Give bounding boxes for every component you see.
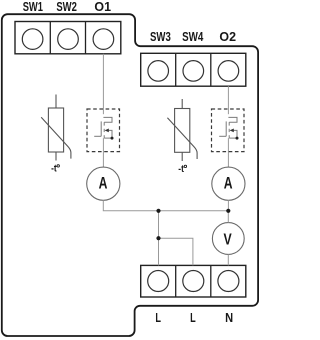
ammeter A1 <box>87 167 120 200</box>
terminal L2 screw <box>183 271 204 292</box>
svg-text:-t: -t <box>178 164 184 175</box>
terminal N screw <box>218 271 239 292</box>
junction dot L1/L2 branch <box>156 236 160 240</box>
svg-text:V: V <box>224 232 233 249</box>
device case outline <box>2 14 258 336</box>
terminal SW3 screw <box>148 61 169 82</box>
junction dot bus/L1 <box>156 209 160 213</box>
terminal block TB3 (L L N) <box>141 265 246 297</box>
dashed enclosure of Q2 <box>212 109 245 152</box>
Q2 substrate arrow <box>230 129 234 133</box>
svg-text:SW1: SW1 <box>23 0 43 14</box>
svg-text:O2: O2 <box>219 29 236 44</box>
MOSFET Q2 <box>219 117 237 138</box>
voltmeter V1 <box>212 223 244 255</box>
junction dot bus/A2/V1 <box>226 209 230 213</box>
thermistor RT1 <box>41 95 71 161</box>
Q1 source junction dot <box>111 137 114 140</box>
wire O1 to Q1 drain <box>102 54 104 114</box>
svg-text:SW2: SW2 <box>56 0 77 14</box>
wire Q2 source to A2 <box>227 138 229 167</box>
svg-text:O1: O1 <box>94 0 111 14</box>
wire A1 down and bus to A2 <box>103 200 228 211</box>
svg-text:SW4: SW4 <box>182 29 204 44</box>
svg-text:A: A <box>224 175 233 193</box>
terminal O2 screw <box>218 61 239 82</box>
dashed enclosure of Q1 <box>87 109 120 152</box>
terminal L1 screw <box>148 271 169 292</box>
svg-text:L: L <box>190 310 196 325</box>
wire A2 to junction <box>227 200 229 211</box>
terminal SW2 screw <box>58 29 79 50</box>
svg-text:-t: -t <box>51 164 57 175</box>
Q2 source junction dot <box>236 137 239 140</box>
wire junction to V1 <box>227 211 229 223</box>
svg-text:L: L <box>155 310 161 325</box>
svg-text:A: A <box>99 175 108 193</box>
wire O2 to Q2 drain <box>227 86 229 114</box>
wire bus to terminal L1 <box>158 211 160 266</box>
wire Q1 source to A1 <box>102 138 104 167</box>
Q1 substrate arrow <box>105 129 109 133</box>
wire V1 to terminal N <box>227 254 229 265</box>
thermistor RT2 <box>167 99 197 161</box>
terminal SW1 screw <box>22 29 43 50</box>
terminal block TB2 (SW3 SW4 O2) <box>141 53 246 86</box>
svg-text:SW3: SW3 <box>150 29 171 44</box>
terminal block TB1 (SW1 SW2 O1) <box>15 22 121 54</box>
svg-text:N: N <box>225 310 233 325</box>
terminal SW4 screw <box>183 61 204 82</box>
MOSFET Q1 <box>94 117 112 138</box>
ammeter A2 <box>212 167 245 200</box>
terminal O1 screw <box>93 29 114 50</box>
wire branch to terminal L2 <box>159 238 193 265</box>
